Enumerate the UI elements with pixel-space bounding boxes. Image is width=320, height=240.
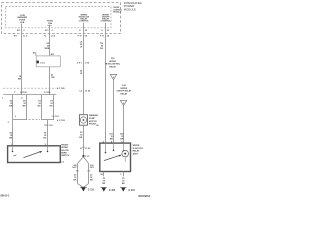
wire W6 color label	[80, 42, 83, 49]
svg-text:2: 2	[123, 103, 124, 105]
svg-text:BR: BR	[23, 105, 26, 107]
pin labels fuse F1 at FCM edge	[17, 30, 25, 32]
svg-text:C1 06: C1 06	[85, 91, 91, 93]
branch connector ticks	[76, 170, 79, 172]
wiper motor pin dot 1	[105, 152, 107, 154]
in-line connector C105 (dashed)	[3, 87, 56, 89]
svg-text:G 304: G 304	[109, 189, 116, 192]
label: FRONT CONTROL MODULE	[113, 7, 123, 13]
svg-text:SWITCH: SWITCH	[61, 155, 70, 157]
splice S1 dot	[82, 155, 84, 157]
loop U1 left leg color label	[9, 100, 13, 107]
svg-text:PARK: PARK	[61, 151, 67, 154]
label: from wiper on/off relay	[116, 84, 132, 95]
svg-text:WIPER: WIPER	[133, 145, 140, 147]
svg-text:W: W	[80, 73, 82, 75]
svg-text:4 C 103: 4 C 103	[57, 119, 65, 122]
svg-text:BK: BK	[79, 137, 82, 139]
svg-text:W: W	[80, 47, 82, 49]
loop U1 bottom	[13, 119, 27, 121]
wiper motor switch arrowhead	[119, 155, 122, 157]
connector tick on washer leg	[82, 146, 85, 148]
in-line connector on W6 (lower)	[79, 90, 91, 93]
svg-text:C1 30: C1 30	[85, 148, 91, 150]
pin labels at C105	[14, 91, 51, 94]
wiper motor circle	[122, 150, 129, 157]
off-page triangle T2	[120, 100, 126, 105]
label: wiper switch	[61, 145, 70, 157]
svg-text:RD: RD	[38, 105, 41, 107]
svg-text:RD: RD	[50, 105, 53, 107]
front control module box (inner dashed)	[6, 7, 112, 28]
svg-text:2: 2	[113, 77, 114, 79]
wiper motor ground stub 1	[103, 172, 105, 177]
branch converge left	[78, 184, 83, 187]
wire W7 color label	[100, 43, 104, 50]
wiper motor pin stub 3	[123, 143, 125, 150]
wiper motor pin dot 3	[123, 150, 125, 152]
wire W2 color label	[45, 43, 50, 50]
loop U1 right leg color label	[23, 100, 27, 107]
wire W5 lower color label	[43, 132, 47, 140]
svg-text:WIPER: WIPER	[121, 88, 128, 90]
off-page triangle T1	[110, 74, 116, 79]
label: from wiper high/low relay	[105, 58, 121, 68]
svg-text:2 C105: 2 C105	[44, 92, 51, 94]
wire W6 mid color label	[80, 70, 83, 75]
wire W9 (x=123.8) from triangle T2	[123, 106, 125, 144]
label: washer pump motor	[89, 114, 99, 125]
svg-text:1 C 103: 1 C 103	[52, 116, 60, 118]
svg-text:CONTROL: CONTROL	[79, 20, 90, 22]
wire W3 lower (x=13)	[12, 120, 14, 146]
wiper motor pin dot 2	[113, 149, 115, 151]
svg-text:ON/OFF RELAY: ON/OFF RELAY	[116, 90, 132, 93]
pin labels wire F1 at IPM edge	[14, 35, 28, 38]
svg-text:RELAY: RELAY	[133, 150, 140, 153]
switch pin stub 3	[47, 146, 49, 151]
switch arm arrowhead	[39, 151, 42, 153]
ground branch right wire	[88, 163, 90, 183]
svg-text:BR: BR	[110, 139, 113, 141]
branch right upper label	[90, 165, 95, 169]
ground leg 1 labels	[102, 178, 106, 185]
branch left color label	[74, 174, 78, 181]
svg-text:BK: BK	[122, 183, 125, 185]
wire W8 color label	[109, 134, 113, 141]
ground G304 symbol 2	[121, 188, 126, 192]
wire W6 lower color label	[79, 132, 83, 139]
loop U2 right leg color label	[50, 99, 54, 107]
wire W6 to splice	[83, 147, 85, 156]
wire fuse F1 pin stub	[21, 24, 23, 28]
pin labels above wiper motor box	[103, 140, 124, 143]
wire W3 lower color label	[9, 133, 13, 140]
svg-text:TJ: TJ	[44, 36, 46, 38]
wiper motor M2 box	[100, 143, 131, 171]
svg-text:8W-53-2: 8W-53-2	[1, 195, 10, 197]
fuse F1 (low washer fuse)	[17, 15, 27, 24]
svg-text:20A: 20A	[20, 21, 24, 24]
wire F1 through IPM edge	[21, 28, 23, 34]
label: INTEGRATED POWER MODULE	[124, 1, 142, 11]
pin number labels above switch box	[11, 144, 47, 146]
label: wiper motor	[133, 145, 144, 155]
washer pump motor M1 box	[80, 115, 88, 126]
switch aux contact mark	[13, 155, 16, 156]
svg-text:HIGH/LOW REL: HIGH/LOW REL	[105, 64, 121, 66]
svg-text:RELAY: RELAY	[109, 65, 116, 68]
washer pump motor dot	[83, 119, 85, 121]
wire W7 (x=105.5) from relay control 2 to wiper motor	[105, 34, 107, 144]
svg-text:RELAY: RELAY	[121, 92, 128, 95]
diode D1 element	[37, 61, 39, 64]
diode D1 box	[36, 56, 60, 67]
svg-text:DG: DG	[100, 48, 103, 50]
svg-text:MOTOR: MOTOR	[89, 121, 97, 123]
svg-text:WIPER: WIPER	[109, 61, 116, 63]
pin labels fuse F2 at FCM edge	[45, 30, 54, 32]
branch left upper label	[72, 165, 77, 169]
wire W2 below diode	[49, 67, 51, 95]
wire W1 color label	[18, 76, 22, 81]
svg-text:ASSY: ASSY	[133, 152, 139, 155]
washer pump motor circle	[80, 117, 86, 123]
svg-text:BR: BR	[120, 139, 123, 141]
svg-text:PUMP: PUMP	[89, 118, 96, 120]
wire fuse F2 pin stub	[49, 25, 51, 34]
ground G304 symbol 1	[102, 188, 107, 192]
in-line connector C103 (dashed mid segment)	[29, 119, 41, 121]
wiper motor switch arm	[104, 155, 120, 160]
integrated power module box (outer dashed)	[2, 3, 121, 34]
wire W5 lower (x=47)	[47, 120, 49, 146]
relay control 2 text (wiper on/off relay control)	[101, 14, 112, 22]
svg-text:G 304: G 304	[128, 189, 135, 192]
ground branch left diagonal	[78, 157, 84, 164]
diode D1 labels	[33, 53, 38, 57]
wire relay control 2 stub	[105, 23, 107, 34]
in-line connector on W6 (upper)	[77, 62, 90, 65]
svg-text:BR: BR	[9, 138, 12, 140]
loop U2 left leg (x=41.3)	[41, 95, 43, 120]
wiper motor ground stub 2	[123, 172, 125, 177]
ground G110 symbol	[81, 187, 86, 191]
svg-text:MODULE: MODULE	[113, 11, 122, 13]
splice bus S1	[3, 94, 56, 96]
wire W6 below motor	[83, 125, 85, 147]
svg-text:4 C105: 4 C105	[20, 91, 27, 94]
switch pin contact dot 3	[47, 151, 49, 153]
ground branch left wire	[77, 163, 79, 183]
ground branch right diagonal	[84, 157, 89, 164]
svg-text:BK: BK	[102, 183, 105, 185]
wire W2 (x=50) down to diode	[49, 34, 51, 56]
wiper motor circle dot	[124, 153, 126, 155]
svg-text:W MOTOR: W MOTOR	[133, 148, 144, 150]
loop U2 bottom	[41, 119, 54, 121]
loop U1 right leg (x=27)	[26, 95, 28, 120]
branch converge right	[84, 184, 89, 187]
svg-text:WASHER: WASHER	[89, 114, 99, 117]
wire W2 lower color label	[51, 75, 56, 80]
loop U1 left leg (x=13)	[12, 95, 14, 120]
splice bus pin labels	[2, 96, 23, 99]
in-line connector on washer ground leg	[80, 148, 91, 150]
svg-text:RD: RD	[43, 138, 46, 140]
svg-text:15A: 15A	[48, 22, 52, 25]
svg-text:CONTROL: CONTROL	[101, 20, 112, 22]
wire W6 (x=83) from relay control 1	[83, 34, 85, 115]
wiper motor circle lower lead	[124, 157, 126, 162]
svg-text:MODULE: MODULE	[124, 7, 136, 11]
loop U2 left leg color label	[38, 99, 42, 107]
wiper motor pin stub 2	[113, 143, 115, 150]
switch arm (arrow)	[24, 152, 41, 158]
wiper motor pin stub 1	[105, 143, 107, 152]
pin labels wire F2 at IPM edge	[44, 35, 56, 38]
svg-text:W5B: W5B	[45, 48, 50, 50]
wire W9 color label	[120, 133, 124, 141]
svg-text:BR: BR	[18, 79, 22, 81]
wiper switch box SW1	[8, 146, 61, 163]
svg-text:T4 C 103: T4 C 103	[44, 124, 53, 127]
pin labels relay control 2	[100, 30, 110, 38]
ground leg 2 labels	[122, 178, 126, 185]
fuse F2 bottom bar	[47, 25, 52, 27]
fuse F2	[47, 21, 53, 25]
wire W8 (x=113.4) from triangle T1	[113, 80, 115, 143]
svg-text:4 C 105: 4 C 105	[57, 87, 65, 90]
pin labels relay control 1	[78, 30, 88, 38]
switch pin contact dot 1	[12, 151, 14, 153]
loop U2 right leg (x=54)	[53, 95, 55, 120]
wire relay control 1 stub	[83, 23, 85, 34]
svg-text:G 110: G 110	[88, 190, 95, 192]
wire W1 (left, x=22) down to splice bus	[21, 34, 23, 95]
svg-text:80537905A: 80537905A	[138, 195, 150, 198]
switch pin stub 1	[12, 146, 14, 151]
svg-text:BR: BR	[9, 105, 12, 107]
branch right color label	[90, 174, 93, 181]
relay control 1 text (wiper high/low relay control)	[79, 14, 90, 22]
